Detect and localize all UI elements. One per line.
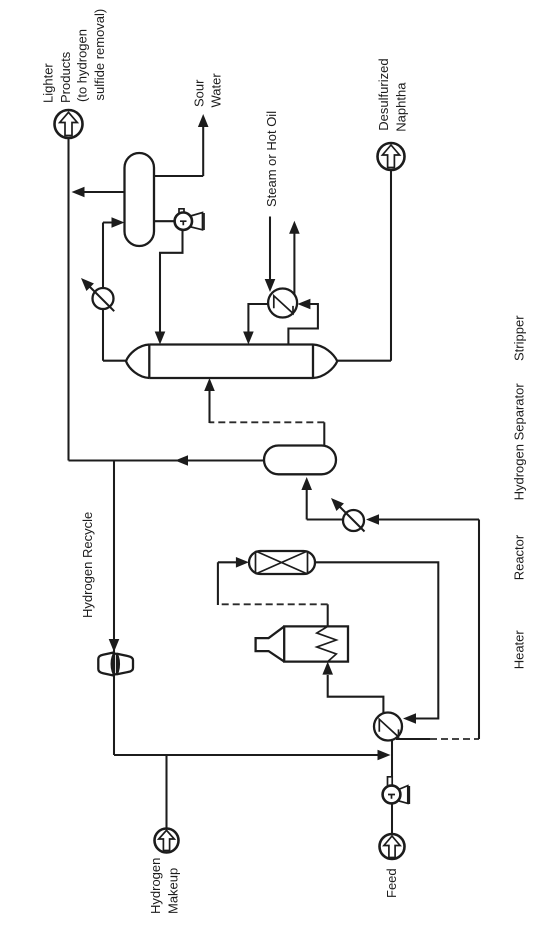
svg-text:Desulfurized: Desulfurized [376,58,391,130]
svg-text:sulfide removal): sulfide removal) [92,9,107,101]
svg-text:(to hydrogen: (to hydrogen [75,29,90,102]
svg-text:Stripper: Stripper [512,315,527,361]
svg-text:Heater: Heater [512,630,527,670]
svg-text:Feed: Feed [384,868,399,898]
svg-text:Products: Products [58,51,73,103]
svg-text:Lighter: Lighter [41,63,56,103]
svg-text:Hydrogen Recycle: Hydrogen Recycle [80,512,95,618]
svg-text:Water: Water [209,73,224,108]
svg-text:Hydrogen: Hydrogen [148,858,163,914]
svg-text:Steam or Hot Oil: Steam or Hot Oil [264,111,279,207]
svg-text:Hydrogen Separator: Hydrogen Separator [512,383,527,501]
svg-text:Reactor: Reactor [512,534,527,580]
svg-text:Naphtha: Naphtha [393,82,408,132]
svg-text:Sour: Sour [192,79,207,107]
svg-text:Makeup: Makeup [166,868,181,914]
